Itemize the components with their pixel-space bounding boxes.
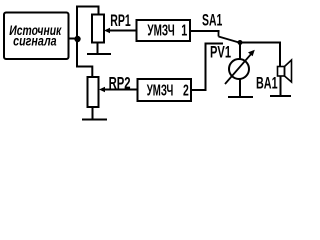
ground under PV1 <box>228 96 253 98</box>
wire source output <box>68 38 78 40</box>
wire RP2 bottom lead <box>92 107 94 119</box>
speaker BA1 horn <box>285 60 292 82</box>
switch SA1 lever <box>219 37 240 43</box>
svg-text:SA1: SA1 <box>202 11 222 30</box>
switch SA1 contact tick <box>218 31 220 37</box>
wire PV1 bottom lead <box>239 79 241 97</box>
potentiometer RP1 body <box>92 15 104 43</box>
wire U2 output to switch lower throw <box>191 44 223 91</box>
amplifier U2 box <box>138 79 192 101</box>
voltmeter PV1 needle arrow <box>225 52 253 84</box>
svg-text:УМЗЧ: УМЗЧ <box>147 23 174 40</box>
speaker BA1 box <box>278 67 285 77</box>
signal source box G1 <box>4 13 69 60</box>
ground under BA1 <box>270 95 291 97</box>
wiper arrowhead RP1 <box>104 28 110 33</box>
potentiometer RP2 body <box>88 77 99 107</box>
wire BA1 bottom lead <box>280 76 282 96</box>
voltmeter PV1 circle <box>229 59 249 79</box>
svg-text:PV1: PV1 <box>210 43 231 62</box>
wire RP2 branch from junction <box>77 67 92 78</box>
wiper arrow RP1 wire <box>108 30 137 32</box>
wire pole to speaker <box>240 43 280 67</box>
svg-text:BA1: BA1 <box>256 73 278 92</box>
svg-text:сигнала: сигнала <box>13 33 57 49</box>
node junction at source output <box>74 36 80 42</box>
wiper arrow RP2 wire <box>103 89 138 91</box>
amplifier U1 box <box>137 20 191 41</box>
ground under RP1 <box>87 53 111 55</box>
wire RP1 bottom lead <box>97 43 99 54</box>
svg-text:RP2: RP2 <box>109 74 131 93</box>
node switch pole <box>238 40 243 45</box>
wire U1 output <box>190 30 220 32</box>
svg-text:2: 2 <box>183 83 189 100</box>
wiper arrowhead RP2 <box>99 87 105 92</box>
wire pole to voltmeter <box>239 43 241 60</box>
voltmeter needle arrowhead <box>248 50 255 57</box>
svg-text:RP1: RP1 <box>110 11 131 30</box>
svg-text:УМЗЧ: УМЗЧ <box>147 83 174 100</box>
svg-text:1: 1 <box>181 23 187 40</box>
ground under RP2 <box>82 119 107 121</box>
wire riser from junction up to RP1 branch <box>77 7 99 68</box>
